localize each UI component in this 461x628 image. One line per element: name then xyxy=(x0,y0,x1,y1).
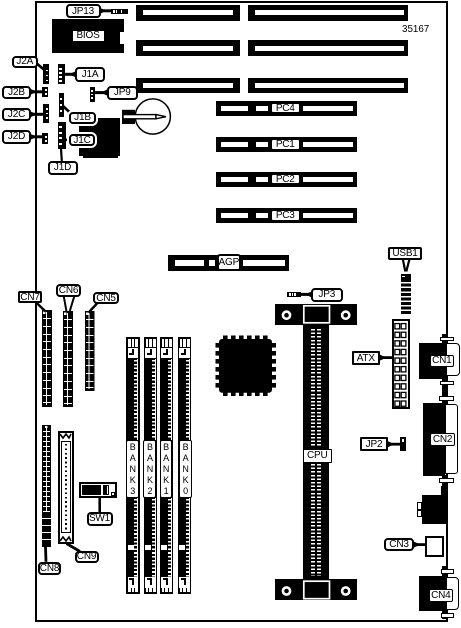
label J2A xyxy=(12,56,39,69)
wire J1B pointer xyxy=(63,106,72,115)
ISA slot row 3 left segment xyxy=(136,78,240,94)
CN1 top tab xyxy=(442,334,446,343)
connector J2A xyxy=(43,64,49,84)
label JP13 xyxy=(66,4,101,18)
part number 35167 xyxy=(402,24,429,35)
label J2D xyxy=(2,130,31,144)
connector CN8 xyxy=(42,425,51,547)
J1A wedge xyxy=(69,71,76,78)
wire J1D pointer xyxy=(60,149,63,161)
CN2 bottom tab xyxy=(442,475,447,491)
stacked port above CN3 xyxy=(441,486,447,496)
CN1 body xyxy=(419,343,446,379)
label JP2 xyxy=(360,437,388,451)
label J2C xyxy=(2,108,31,121)
wire JP3 pointer xyxy=(301,293,313,296)
label CN2 xyxy=(430,433,455,446)
label BANK3 xyxy=(126,440,139,498)
CN1 external port xyxy=(446,343,460,376)
CN9 bottom polarizing notch xyxy=(59,534,72,542)
ISA slot row 1 left segment xyxy=(136,5,240,22)
connector CN9 xyxy=(58,431,74,544)
label CN9 xyxy=(75,551,99,563)
JP13 wedge xyxy=(99,8,107,15)
wire J1C pointer xyxy=(65,139,71,142)
CN2 external port xyxy=(445,404,458,474)
DIMM socket BANK2 xyxy=(144,337,158,594)
CPU slot top retention bar xyxy=(275,304,356,325)
PCI slot PC3 xyxy=(216,208,357,223)
wire CN5 pointer xyxy=(90,304,98,312)
CN9 top polarizing notch xyxy=(59,433,72,441)
CN2 top tab xyxy=(442,386,447,404)
CN2 body xyxy=(423,403,445,476)
ISA slot row 1 right segment xyxy=(248,5,408,22)
CPU slot bottom retention bar xyxy=(275,579,356,600)
label BANK0 xyxy=(179,440,192,498)
CPU slot pin stripes xyxy=(311,329,321,448)
label J1C xyxy=(69,134,95,146)
connector J2D xyxy=(42,133,48,144)
label ATX xyxy=(352,351,381,365)
wire SW1 pointer xyxy=(98,498,101,513)
CN3 port xyxy=(425,536,443,557)
wire J2D pointer xyxy=(30,135,44,138)
wire J2A pointer xyxy=(35,62,45,71)
connector JP9 xyxy=(90,87,95,102)
label CN4 xyxy=(429,589,454,602)
J2B wedge xyxy=(30,89,38,96)
JP3 wedge xyxy=(305,291,312,298)
label J1B xyxy=(69,112,96,125)
label SW1 xyxy=(87,512,113,526)
connector J2C xyxy=(43,104,49,123)
PCI slot PC4 xyxy=(216,101,357,116)
ISA slot row 3 right segment xyxy=(248,78,408,94)
wire USB1 pointer xyxy=(403,259,406,272)
wire CN7 pointer xyxy=(37,303,46,312)
connector JP3 xyxy=(287,292,301,297)
label CPU xyxy=(303,449,333,463)
J2D wedge xyxy=(30,134,38,141)
BIOS chip xyxy=(52,19,124,53)
label BANK1 xyxy=(160,440,173,498)
ISA slot row 2 left segment xyxy=(136,40,240,56)
label USB1 xyxy=(388,247,422,260)
wire CN9 pointer xyxy=(67,544,81,552)
wire ATX pointer xyxy=(380,356,393,359)
CN3 wedge xyxy=(413,541,420,548)
DIP switch SW1 xyxy=(79,482,117,497)
connector ATX power xyxy=(392,319,410,409)
connector CN6 xyxy=(63,311,73,407)
CPU slot holes and channels xyxy=(270,300,365,606)
battery xyxy=(120,96,176,138)
label J2B xyxy=(2,86,31,99)
CN4 bottom tab xyxy=(442,611,447,619)
CN4 body xyxy=(419,576,447,612)
ATX wedge xyxy=(379,354,386,361)
QFP chip U1 xyxy=(213,333,279,399)
label CN5 xyxy=(93,292,119,304)
DIMM socket BANK0 xyxy=(178,337,192,594)
label CN6 xyxy=(56,284,81,297)
JP13 connector xyxy=(111,9,128,14)
CPU slot body xyxy=(303,313,329,579)
J2C wedge xyxy=(30,111,38,118)
DIMM socket BANK3 xyxy=(126,337,140,594)
wire CN3 pointer xyxy=(414,543,426,546)
PCI slot PC1 xyxy=(216,137,357,152)
connector CN5 xyxy=(85,311,95,391)
label CN8 xyxy=(38,562,61,575)
ISA slot row 2 right segment xyxy=(248,40,408,56)
chipset block xyxy=(79,118,121,157)
label BANK2 xyxy=(143,440,156,498)
AGP slot xyxy=(168,255,289,271)
wire J1A pointer xyxy=(65,73,77,76)
CN1 bottom tab xyxy=(442,379,446,387)
wire J2C pointer xyxy=(30,113,45,116)
CN4 top tab xyxy=(442,566,447,576)
PCI slot PC2 xyxy=(216,172,357,187)
DIMM socket BANK1 xyxy=(160,337,174,594)
wire JP13 pointer xyxy=(100,9,113,12)
wire JP2 pointer xyxy=(388,443,401,446)
connector JP2 xyxy=(400,437,406,451)
label CN3 xyxy=(384,538,414,551)
wire J2B pointer xyxy=(30,90,44,93)
label CN1 xyxy=(430,355,455,367)
DIMM lever notches xyxy=(128,545,134,551)
JP9 wedge xyxy=(101,89,108,96)
connector J1A xyxy=(58,64,65,84)
connector J1B xyxy=(59,93,64,117)
connector USB1 xyxy=(401,274,412,315)
connector J2B xyxy=(42,87,48,98)
label JP3 xyxy=(311,288,343,302)
JP2 wedge xyxy=(387,441,394,448)
wire CN6 pointer xyxy=(64,297,67,312)
wire JP9 pointer xyxy=(95,91,108,94)
label J1A xyxy=(75,67,105,82)
connector CN7 xyxy=(42,310,52,407)
label J1D xyxy=(48,161,78,175)
wire CN8 pointer xyxy=(44,547,47,562)
DIMM rail separators xyxy=(137,359,139,440)
label JP9 xyxy=(107,86,139,100)
CN4 external port xyxy=(446,577,459,611)
connector J1C xyxy=(58,122,66,149)
label CN7 xyxy=(18,291,42,303)
